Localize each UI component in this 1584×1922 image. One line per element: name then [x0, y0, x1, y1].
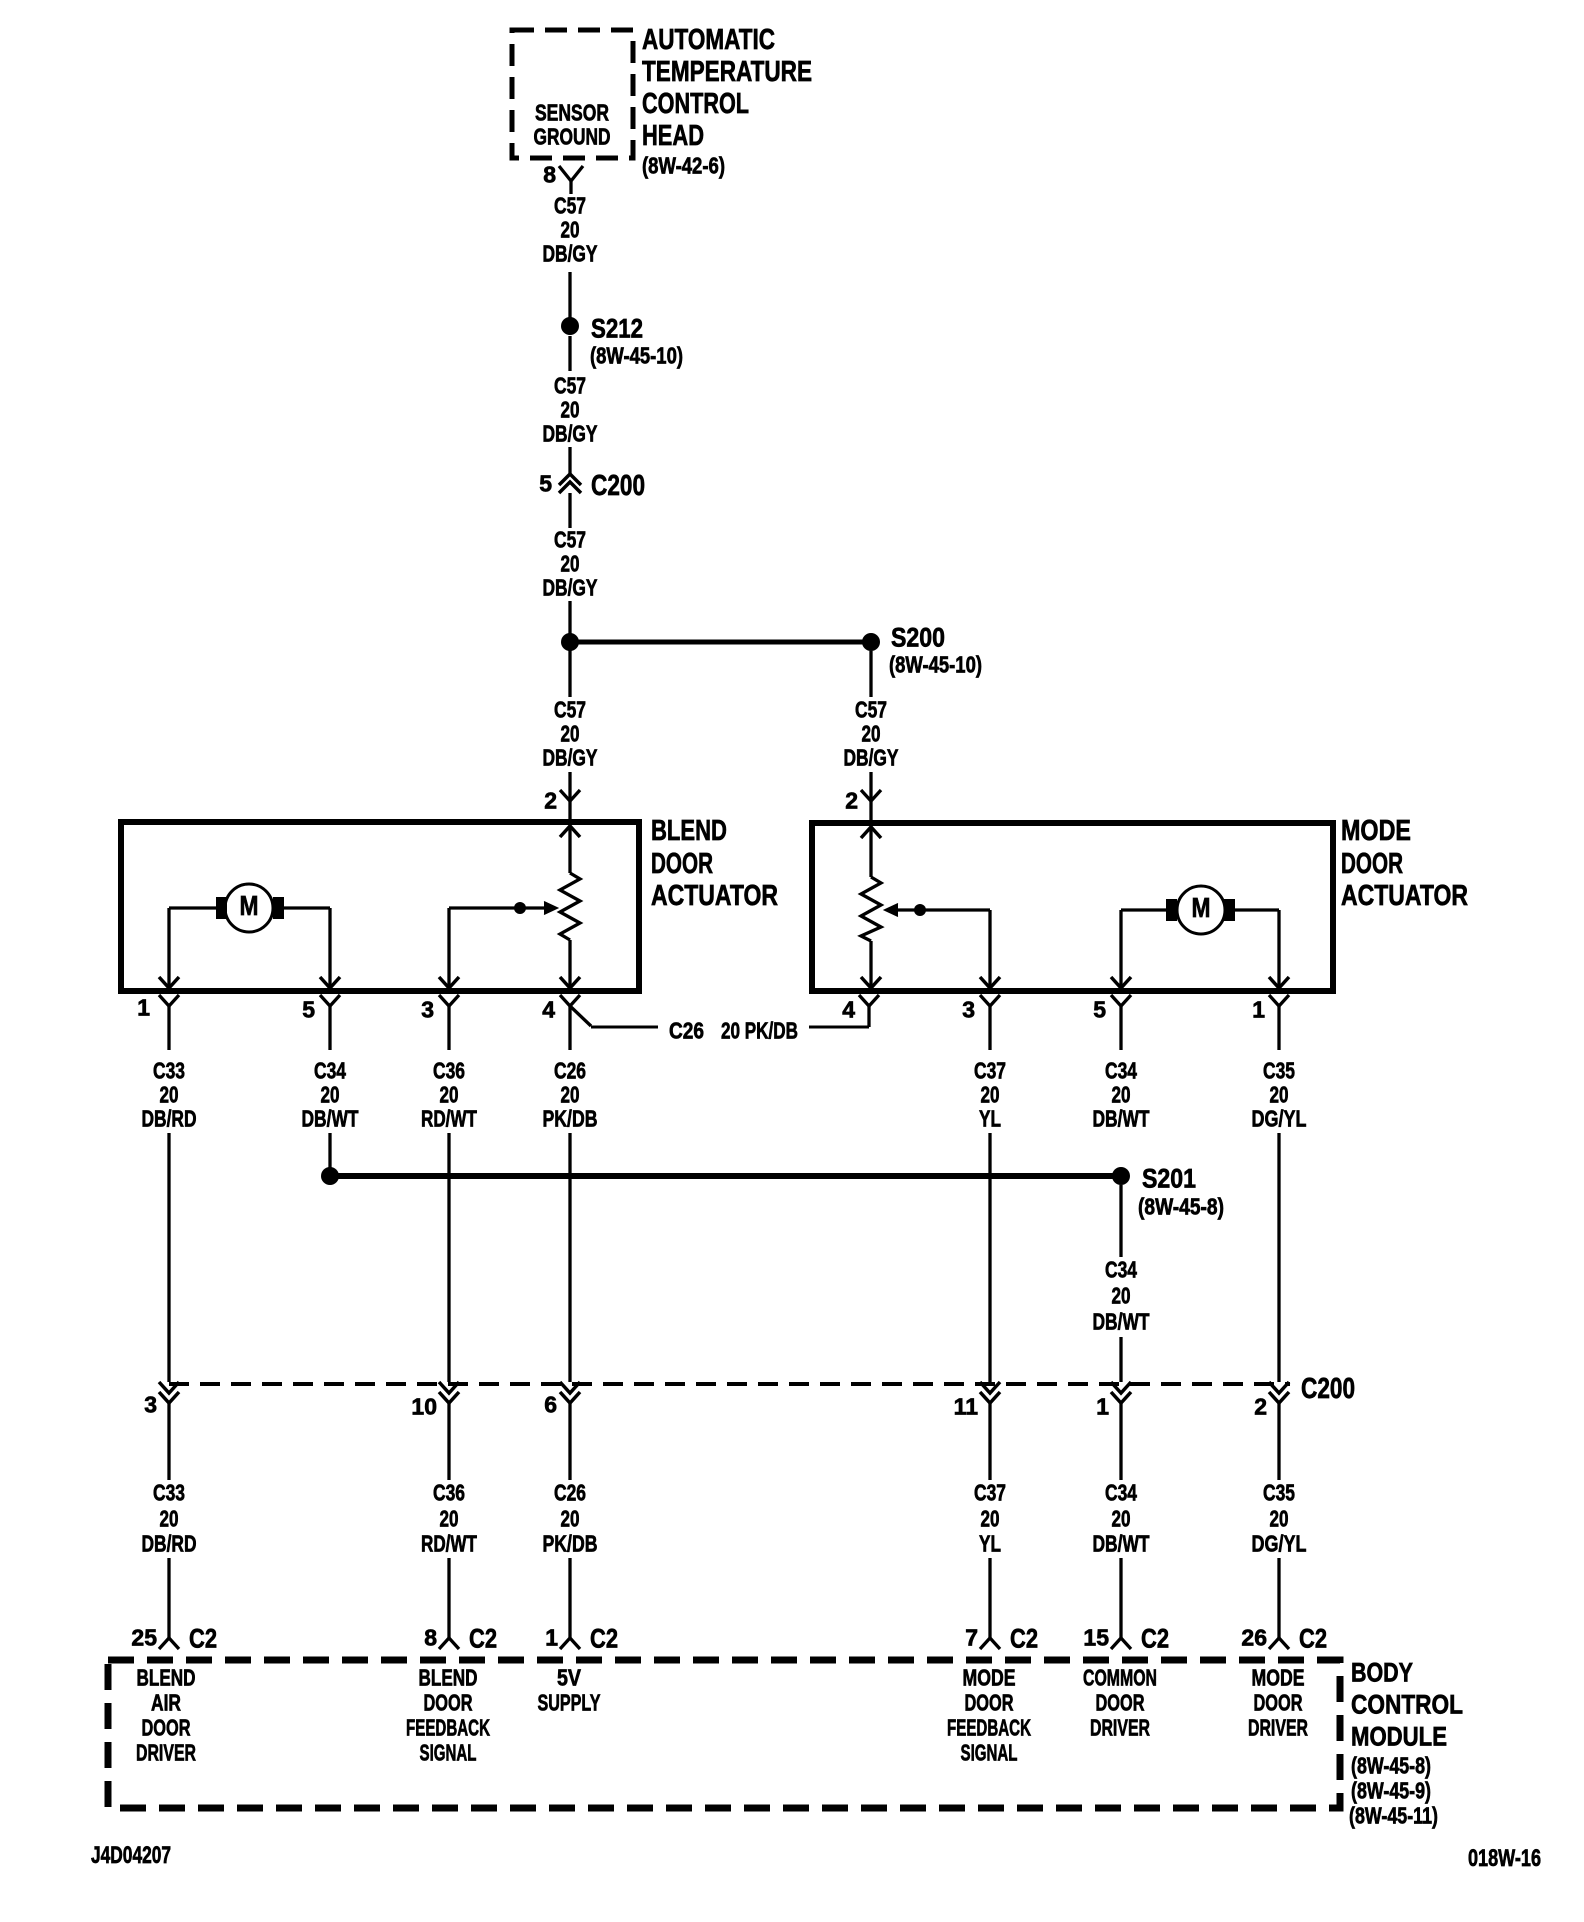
- svg-text:20: 20: [981, 1082, 1000, 1108]
- pin 4 connector mode actuator: [842, 995, 879, 1023]
- pin 1 connector mode actuator: [1252, 995, 1289, 1050]
- svg-text:ACTUATOR: ACTUATOR: [651, 880, 778, 912]
- svg-text:20: 20: [561, 397, 580, 423]
- svg-text:C34: C34: [1105, 1058, 1137, 1084]
- connector C200 pin 10: [411, 1382, 459, 1420]
- wire C34 into C2 connector: [1119, 1558, 1122, 1638]
- svg-text:SENSOR: SENSOR: [535, 100, 609, 126]
- label BLEND DOOR FEEDBACK SIGNAL: [406, 1665, 490, 1766]
- svg-text:C200: C200: [591, 470, 645, 502]
- pin 3 connector blend actuator: [421, 995, 459, 1050]
- svg-text:DOOR: DOOR: [424, 1690, 473, 1716]
- svg-text:DB/WT: DB/WT: [302, 1106, 359, 1132]
- svg-text:20: 20: [561, 551, 580, 577]
- svg-text:(8W-45-8): (8W-45-8): [1351, 1753, 1431, 1779]
- wire C26 into C2 connector: [568, 1558, 571, 1638]
- svg-text:DOOR: DOOR: [651, 848, 713, 880]
- svg-text:3: 3: [421, 997, 434, 1023]
- svg-text:20: 20: [1112, 1506, 1131, 1532]
- wire label C57 20 DB/GY (left branch): [543, 697, 598, 771]
- svg-text:20: 20: [1270, 1082, 1289, 1108]
- svg-text:C37: C37: [974, 1480, 1006, 1506]
- svg-text:10: 10: [411, 1394, 437, 1420]
- connector C2 pin 25 (blend air door driver): [131, 1623, 217, 1653]
- svg-text:S200: S200: [891, 622, 945, 652]
- svg-text:20: 20: [981, 1506, 1000, 1532]
- svg-text:5: 5: [539, 471, 552, 497]
- svg-text:20: 20: [440, 1082, 459, 1108]
- connector C2 pin 15 (common door driver): [1083, 1623, 1169, 1653]
- wire label C33 20 DB/RD (upper): [142, 1058, 197, 1132]
- svg-text:DOOR: DOOR: [965, 1690, 1014, 1716]
- label MODE DOOR FEEDBACK SIGNAL: [947, 1665, 1031, 1766]
- connector C2 pin 8 (blend door feedback): [424, 1623, 497, 1653]
- svg-text:(8W-45-9): (8W-45-9): [1351, 1778, 1431, 1804]
- svg-text:20: 20: [321, 1082, 340, 1108]
- svg-text:20: 20: [561, 1506, 580, 1532]
- wire C37 to C200: [988, 1133, 991, 1382]
- svg-text:CONTROL: CONTROL: [1351, 1689, 1463, 1719]
- svg-text:C26: C26: [554, 1058, 586, 1084]
- mode door actuator box: [812, 823, 1333, 991]
- svg-text:11: 11: [954, 1394, 979, 1420]
- wire C34 from C200 to BCM: [1119, 1403, 1122, 1480]
- svg-text:26: 26: [1241, 1625, 1267, 1651]
- svg-text:S201: S201: [1142, 1163, 1196, 1193]
- svg-text:AIR: AIR: [151, 1690, 181, 1716]
- wire motor left brush to pin 1: [159, 908, 216, 988]
- svg-text:C200: C200: [1301, 1373, 1355, 1405]
- svg-text:C2: C2: [1141, 1623, 1169, 1653]
- svg-text:DOOR: DOOR: [1341, 848, 1403, 880]
- wire label C36 20 RD/WT (upper): [421, 1058, 477, 1132]
- wire C35 from C200 to BCM: [1277, 1403, 1280, 1480]
- svg-text:1: 1: [137, 995, 150, 1021]
- splice S201 bus wire: [337, 1173, 1114, 1179]
- pin 2 connector mode actuator: [845, 788, 881, 821]
- svg-text:(8W-45-10): (8W-45-10): [590, 343, 683, 369]
- wire label C34 20 DB/WT (below S201): [1093, 1257, 1150, 1335]
- wire C57 20 DB/GY segment 1: [568, 272, 571, 318]
- svg-text:20: 20: [1270, 1506, 1289, 1532]
- wire into junction: [568, 601, 571, 642]
- svg-text:SUPPLY: SUPPLY: [538, 1690, 601, 1716]
- svg-text:1: 1: [545, 1625, 558, 1651]
- svg-text:DOOR: DOOR: [142, 1715, 191, 1741]
- svg-text:DOOR: DOOR: [1096, 1690, 1145, 1716]
- pin 3 connector mode actuator: [962, 995, 1000, 1050]
- svg-text:C34: C34: [1105, 1257, 1137, 1283]
- svg-text:C2: C2: [590, 1623, 618, 1653]
- svg-text:PK/DB: PK/DB: [543, 1106, 598, 1132]
- body control module box (dashed): [108, 1660, 1340, 1808]
- pin 5 connector mode actuator: [1093, 995, 1131, 1050]
- label BODY CONTROL MODULE (8W-45-8) (8W-45-9) (8W-45-11): [1349, 1657, 1463, 1828]
- wire C33 from C200 to BCM: [167, 1403, 170, 1480]
- svg-text:C57: C57: [554, 527, 586, 553]
- connector C200 pin 2: [1254, 1382, 1289, 1420]
- svg-text:20: 20: [160, 1506, 179, 1532]
- svg-text:YL: YL: [979, 1106, 1001, 1132]
- svg-text:S212: S212: [591, 313, 643, 343]
- svg-text:C2: C2: [1299, 1623, 1327, 1653]
- svg-text:ACTUATOR: ACTUATOR: [1341, 880, 1468, 912]
- svg-text:3: 3: [962, 997, 975, 1023]
- wire C26 to C200: [568, 1133, 571, 1382]
- wire motor left brush to pin 5 (mode): [1111, 910, 1166, 988]
- junction dot at S200 branch: [561, 633, 579, 651]
- svg-text:C34: C34: [1105, 1480, 1137, 1506]
- svg-text:COMMON: COMMON: [1083, 1665, 1157, 1691]
- blend door actuator box: [121, 822, 639, 991]
- motor M mode actuator: [1166, 886, 1235, 934]
- connector C200 pin 3: [144, 1382, 179, 1418]
- ATC control head box (dashed): [512, 30, 633, 158]
- splice S201 junction dot (left end): [321, 1167, 339, 1185]
- svg-text:RD/WT: RD/WT: [421, 1106, 477, 1132]
- svg-text:DRIVER: DRIVER: [1090, 1715, 1150, 1741]
- connector C2 pin 1 (5v supply): [545, 1623, 618, 1653]
- label MODE DOOR ACTUATOR: [1341, 815, 1468, 912]
- branch wire to mode actuator pin 4: [809, 1006, 869, 1027]
- svg-text:8: 8: [424, 1625, 437, 1651]
- svg-text:20: 20: [1112, 1082, 1131, 1108]
- wire label C33 20 DB/RD (lower): [142, 1480, 197, 1557]
- svg-text:DB/GY: DB/GY: [844, 745, 899, 771]
- wire C33 to C200: [167, 1133, 170, 1382]
- potentiometer blend actuator: [560, 820, 580, 988]
- label MODE DOOR DRIVER: [1248, 1665, 1308, 1741]
- svg-text:DB/WT: DB/WT: [1093, 1106, 1150, 1132]
- wire label C34 20 DB/WT (lower): [1093, 1480, 1150, 1557]
- svg-text:RD/WT: RD/WT: [421, 1531, 477, 1557]
- wire label C26 20 PK/DB (branch): [669, 1018, 798, 1044]
- svg-text:DOOR: DOOR: [1254, 1690, 1303, 1716]
- connector C2 pin 7 (mode door feedback): [965, 1623, 1038, 1653]
- wire C57 left branch to blend actuator: [568, 642, 571, 697]
- svg-text:FEEDBACK: FEEDBACK: [406, 1715, 490, 1741]
- connector C200 pin 11: [954, 1382, 1000, 1420]
- connector C2 pin 26 (mode door driver): [1241, 1623, 1327, 1653]
- wire label C35 20 DG/YL (upper): [1252, 1058, 1307, 1132]
- svg-text:DG/YL: DG/YL: [1252, 1531, 1307, 1557]
- wire C57 right branch to mode actuator: [869, 651, 872, 697]
- wire into C200 connector: [568, 447, 571, 474]
- wire C35 into C2 connector: [1277, 1558, 1280, 1638]
- svg-text:C26: C26: [669, 1018, 704, 1044]
- splice S200: [862, 622, 982, 677]
- wire C36 into C2 connector: [447, 1558, 450, 1638]
- svg-text:5: 5: [1093, 997, 1106, 1023]
- svg-text:SIGNAL: SIGNAL: [420, 1740, 477, 1766]
- svg-text:2: 2: [544, 788, 557, 814]
- pin 5 connector blend actuator: [302, 995, 340, 1050]
- label BLEND AIR DOOR DRIVER: [136, 1665, 196, 1766]
- wire C34 into C200: [1119, 1337, 1122, 1382]
- svg-text:5V: 5V: [557, 1665, 582, 1691]
- svg-text:BLEND: BLEND: [137, 1665, 196, 1691]
- pin 1 connector blend actuator: [137, 995, 179, 1051]
- pin 2 connector blend actuator: [544, 788, 580, 821]
- svg-text:C2: C2: [469, 1623, 497, 1653]
- svg-text:20: 20: [561, 721, 580, 747]
- sheet number 018W-16: [1468, 1845, 1541, 1872]
- svg-text:BLEND: BLEND: [651, 815, 727, 847]
- wire C36 from C200 to BCM: [447, 1403, 450, 1480]
- connector C200 pin 1: [1096, 1382, 1131, 1420]
- svg-text:20: 20: [1112, 1283, 1131, 1309]
- svg-text:4: 4: [842, 997, 855, 1023]
- svg-text:M: M: [1192, 892, 1211, 923]
- svg-text:J4D04207: J4D04207: [91, 1842, 171, 1869]
- potentiometer mode actuator: [861, 821, 881, 988]
- svg-text:YL: YL: [979, 1531, 1001, 1557]
- svg-text:DB/GY: DB/GY: [543, 575, 598, 601]
- svg-text:20 PK/DB: 20 PK/DB: [721, 1018, 798, 1044]
- svg-text:C33: C33: [153, 1058, 185, 1084]
- wire C36 to C200: [447, 1133, 450, 1382]
- wire C34 below S201: [1119, 1185, 1122, 1257]
- label 5V SUPPLY: [538, 1665, 601, 1716]
- drawing number J4D04207: [91, 1842, 171, 1869]
- svg-text:5: 5: [302, 997, 315, 1023]
- svg-text:C26: C26: [554, 1480, 586, 1506]
- svg-text:DB/RD: DB/RD: [142, 1106, 197, 1132]
- label COMMON DOOR DRIVER: [1083, 1665, 1157, 1741]
- splice S212: [561, 313, 683, 368]
- wire C35 to C200: [1277, 1133, 1280, 1382]
- wire label C34 20 DB/WT (upper left): [302, 1058, 359, 1132]
- wire label C37 20 YL (lower): [974, 1480, 1006, 1557]
- svg-text:C36: C36: [433, 1480, 465, 1506]
- wire motor right brush to pin 5: [284, 908, 340, 988]
- svg-text:C37: C37: [974, 1058, 1006, 1084]
- svg-text:DB/WT: DB/WT: [1093, 1309, 1150, 1335]
- svg-text:DRIVER: DRIVER: [1248, 1715, 1308, 1741]
- pin 8 connector of ATC head: [543, 162, 583, 195]
- svg-text:DB/RD: DB/RD: [142, 1531, 197, 1557]
- svg-text:1: 1: [1096, 1394, 1109, 1420]
- svg-text:MODE: MODE: [1341, 815, 1411, 847]
- svg-text:3: 3: [144, 1392, 157, 1418]
- svg-text:BODY: BODY: [1351, 1657, 1413, 1687]
- svg-text:C2: C2: [1010, 1623, 1038, 1653]
- svg-text:SIGNAL: SIGNAL: [961, 1740, 1018, 1766]
- wire left into pin 2: [568, 772, 571, 801]
- wiper arm blend actuator (to pin 3): [439, 902, 558, 989]
- svg-text:20: 20: [160, 1082, 179, 1108]
- svg-text:TEMPERATURE: TEMPERATURE: [642, 56, 812, 88]
- wire C26 from C200 to BCM: [568, 1403, 571, 1480]
- wire C37 into C2 connector: [988, 1558, 991, 1638]
- wire right into pin 2: [869, 772, 872, 801]
- wire to splice S200: [570, 640, 871, 645]
- svg-text:AUTOMATIC: AUTOMATIC: [642, 24, 775, 56]
- svg-text:1: 1: [1252, 997, 1265, 1023]
- wire label C26 20 PK/DB (upper): [543, 1058, 598, 1132]
- wire C57 20 DB/GY segment 3: [568, 493, 571, 528]
- wire label C35 20 DG/YL (lower): [1252, 1480, 1307, 1557]
- wire C34 stub to splice S201: [328, 1133, 331, 1168]
- motor M blend actuator: [216, 884, 284, 932]
- connector C200 pin 6: [544, 1382, 580, 1418]
- svg-text:CONTROL: CONTROL: [642, 88, 749, 120]
- svg-text:20: 20: [561, 217, 580, 243]
- pin 4 connector blend actuator with branch: [542, 995, 658, 1050]
- svg-text:MODE: MODE: [963, 1665, 1016, 1691]
- svg-text:(8W-42-6): (8W-42-6): [642, 153, 725, 179]
- svg-text:C35: C35: [1263, 1058, 1295, 1084]
- svg-text:7: 7: [965, 1625, 978, 1651]
- svg-text:C33: C33: [153, 1480, 185, 1506]
- svg-text:DB/GY: DB/GY: [543, 421, 598, 447]
- connector C200 dashed line: [169, 1373, 1355, 1405]
- wire label C57 20 DB/GY (right branch): [844, 697, 899, 771]
- wire C37 from C200 to BCM: [988, 1403, 991, 1480]
- svg-text:15: 15: [1083, 1625, 1109, 1651]
- svg-text:20: 20: [440, 1506, 459, 1532]
- svg-text:(8W-45-11): (8W-45-11): [1349, 1803, 1438, 1829]
- svg-text:C2: C2: [189, 1623, 217, 1653]
- svg-text:(8W-45-10): (8W-45-10): [889, 652, 982, 678]
- wire label C37 20 YL (upper): [974, 1058, 1006, 1132]
- svg-text:FEEDBACK: FEEDBACK: [947, 1715, 1031, 1741]
- svg-text:DB/WT: DB/WT: [1093, 1531, 1150, 1557]
- wire C57 20 DB/GY segment 2: [568, 336, 571, 371]
- svg-text:2: 2: [845, 788, 858, 814]
- svg-text:(8W-45-8): (8W-45-8): [1138, 1194, 1224, 1220]
- svg-text:6: 6: [544, 1392, 557, 1418]
- svg-text:C35: C35: [1263, 1480, 1295, 1506]
- label AUTOMATIC TEMPERATURE CONTROL HEAD (8W-42-6): [642, 24, 812, 179]
- wire label C57 20 DB/GY (2nd): [543, 373, 598, 447]
- svg-text:BLEND: BLEND: [419, 1665, 478, 1691]
- svg-text:DRIVER: DRIVER: [136, 1740, 196, 1766]
- svg-text:PK/DB: PK/DB: [543, 1531, 598, 1557]
- svg-text:M: M: [240, 890, 259, 921]
- wire label C26 20 PK/DB (lower): [543, 1480, 598, 1557]
- svg-text:018W-16: 018W-16: [1468, 1845, 1541, 1872]
- svg-text:25: 25: [131, 1625, 157, 1651]
- svg-text:C34: C34: [314, 1058, 346, 1084]
- svg-text:DG/YL: DG/YL: [1252, 1106, 1307, 1132]
- splice S201: [1112, 1163, 1224, 1219]
- svg-text:4: 4: [542, 997, 555, 1023]
- svg-text:GROUND: GROUND: [534, 124, 611, 150]
- svg-text:DB/GY: DB/GY: [543, 745, 598, 771]
- wiper arm mode actuator (to pin 3): [884, 904, 1000, 989]
- svg-text:MODULE: MODULE: [1351, 1721, 1447, 1751]
- svg-text:C57: C57: [855, 697, 887, 723]
- wire label C34 20 DB/WT (upper right): [1093, 1058, 1150, 1132]
- wire label C57 20 DB/GY (top): [543, 193, 598, 267]
- svg-text:C36: C36: [433, 1058, 465, 1084]
- svg-text:DB/GY: DB/GY: [543, 241, 598, 267]
- svg-text:8: 8: [543, 162, 556, 188]
- svg-text:C57: C57: [554, 373, 586, 399]
- svg-text:2: 2: [1254, 1394, 1267, 1420]
- label BLEND DOOR ACTUATOR: [651, 815, 778, 912]
- svg-text:HEAD: HEAD: [642, 120, 704, 152]
- svg-text:20: 20: [862, 721, 881, 747]
- wire label C57 20 DB/GY (3rd): [543, 527, 598, 601]
- connector C200 pin 5: [539, 470, 645, 502]
- wire label C36 20 RD/WT (lower): [421, 1480, 477, 1557]
- svg-text:C57: C57: [554, 193, 586, 219]
- svg-text:C57: C57: [554, 697, 586, 723]
- wire motor right brush to pin 1 (mode): [1235, 910, 1289, 988]
- svg-text:20: 20: [561, 1082, 580, 1108]
- wire C33 into C2 connector: [167, 1558, 170, 1638]
- svg-text:MODE: MODE: [1252, 1665, 1305, 1691]
